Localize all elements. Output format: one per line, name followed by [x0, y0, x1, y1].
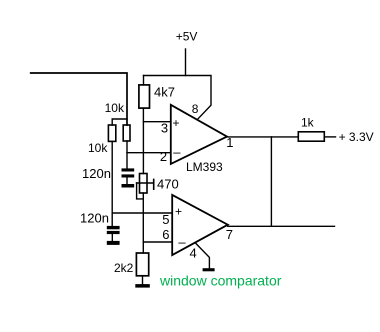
svg-text:3: 3 — [161, 121, 168, 136]
svg-text:+5V: +5V — [176, 30, 198, 44]
trimmer P1 470 body — [140, 174, 148, 194]
wire step to left divider resistor — [112, 119, 127, 125]
trimmer P1 wiper — [137, 179, 154, 189]
svg-text:1k: 1k — [301, 116, 315, 130]
wire pin 6 — [143, 241, 172, 243]
svg-text:–: – — [173, 144, 181, 159]
svg-text:6: 6 — [162, 227, 169, 242]
wire R2 bottom to node pin2 and cap C1 — [126, 141, 128, 169]
svg-text:2k2: 2k2 — [114, 261, 134, 275]
wire 1k to +3.3V — [324, 136, 335, 138]
wire pin 5 — [112, 212, 172, 214]
capacitor C2 120n — [107, 226, 120, 234]
svg-text:8: 8 — [192, 102, 199, 116]
+5V rail wire — [144, 76, 212, 119]
wire C2 to ground — [111, 234, 113, 241]
svg-text:LM393: LM393 — [186, 160, 223, 174]
ground below C2 — [107, 241, 120, 245]
resistor R2 10k (right) — [123, 125, 130, 141]
wire 2k2 to ground — [142, 276, 144, 284]
ground at pin 4 — [203, 268, 215, 271]
wire C1 to ground — [126, 178, 128, 185]
svg-text:+ 3.3V: + 3.3V — [339, 130, 374, 144]
resistor R5 1k — [298, 132, 324, 141]
svg-text:window comparator: window comparator — [159, 273, 282, 289]
wire wiper to bottom terminal — [137, 183, 144, 199]
svg-text:10k: 10k — [88, 141, 108, 155]
svg-text:120n: 120n — [82, 166, 111, 181]
svg-text:–: – — [178, 234, 186, 249]
svg-text:+: + — [173, 116, 180, 130]
wire trimmer bottom to pin6 node and 2k2 — [142, 193, 144, 253]
svg-text:470: 470 — [157, 176, 179, 191]
wire pin 2 — [127, 152, 171, 154]
wire +5V stub — [185, 49, 187, 76]
ground below C1 — [122, 184, 135, 188]
svg-text:+: + — [175, 205, 182, 219]
resistor R1 10k (left) — [108, 125, 115, 141]
ground below 2k2 — [135, 284, 150, 288]
svg-text:120n: 120n — [80, 211, 109, 226]
capacitor C1 120n — [122, 168, 135, 177]
svg-text:10k: 10k — [105, 101, 125, 115]
svg-text:5: 5 — [162, 212, 169, 227]
svg-text:4k7: 4k7 — [154, 84, 175, 99]
svg-text:7: 7 — [226, 227, 233, 242]
wire U1B output — [228, 225, 335, 227]
wire 4k7 bottom to pin3 node and trimmer — [142, 108, 144, 173]
wire output junction vertical — [270, 137, 272, 226]
wire input from left — [31, 73, 127, 125]
wire 4k7 top lead — [143, 76, 145, 85]
op-amp U1A LM393 — [171, 105, 227, 164]
svg-text:2: 2 — [160, 149, 167, 164]
wire pin 3 — [143, 121, 170, 123]
wire pin 4 to ground — [196, 243, 210, 268]
svg-text:4: 4 — [190, 246, 197, 261]
wire U1A output — [227, 136, 298, 138]
resistor R4 2k2 — [136, 253, 148, 276]
resistor R3 4k7 — [139, 85, 150, 108]
op-amp U1B LM393 — [172, 195, 228, 255]
wire R1 bottom to node pin5 — [111, 141, 113, 226]
svg-text:1: 1 — [226, 135, 233, 150]
